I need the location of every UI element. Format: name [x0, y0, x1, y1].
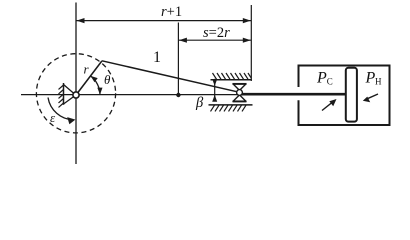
dimension line s=2r	[178, 39, 251, 41]
r+1 left arrowhead	[77, 18, 85, 23]
beta dimension vertical line	[214, 79, 216, 101]
svg-text:r: r	[84, 62, 90, 77]
theta arc arrowhead upper	[91, 76, 98, 82]
junction dot at stroke start	[176, 93, 180, 97]
slider guide bottom rail	[209, 104, 253, 106]
theta arc arrowhead lower	[97, 88, 102, 95]
svg-text:r+1: r+1	[161, 4, 182, 20]
extension line right (x=251)	[250, 5, 252, 81]
epsilon arrowhead	[67, 117, 75, 124]
fixed support wall	[63, 83, 65, 105]
svg-text:C: C	[327, 77, 333, 87]
slider pin circle	[237, 90, 243, 96]
horizontal centerline	[21, 94, 240, 96]
s=2r right arrowhead	[243, 38, 251, 43]
slider bowtie lower triangle	[233, 95, 246, 102]
piston rod (thick) from slider to piston	[240, 93, 346, 96]
dimension line r+1	[76, 20, 251, 22]
svg-text:P: P	[316, 70, 327, 87]
svg-text:ε: ε	[50, 110, 56, 125]
top rail hatching	[213, 73, 252, 79]
slider bowtie upper triangle	[233, 84, 246, 91]
slider bowtie lower base bar	[233, 100, 247, 102]
piston	[346, 68, 357, 122]
theta angle arc	[91, 76, 101, 95]
cylinder body	[299, 66, 390, 126]
svg-text:H: H	[375, 77, 382, 87]
connecting rod	[102, 61, 240, 93]
beta up arrowhead at centerline	[212, 95, 217, 102]
extension line left for s (x=178.4)	[177, 23, 179, 96]
svg-text:P: P	[365, 70, 376, 87]
arrow toward piston left side	[322, 101, 334, 110]
fixed support triangle	[64, 85, 75, 105]
crank arm r	[76, 61, 102, 95]
slider bowtie upper base bar	[233, 83, 247, 85]
slider guide top rail	[211, 79, 252, 81]
dashed crank circle	[36, 54, 115, 133]
svg-text:s=2r: s=2r	[203, 25, 230, 41]
bottom rail hatching	[211, 105, 247, 111]
fixed support hatching	[59, 85, 64, 107]
svg-text:β: β	[195, 95, 204, 111]
vertical centerline through crank axis	[75, 3, 77, 165]
s=2r left arrowhead	[179, 38, 187, 43]
svg-text:1: 1	[153, 49, 161, 66]
pivot pin circle O	[73, 92, 79, 98]
epsilon rotation arrow	[48, 98, 73, 120]
arrow toward piston right side	[366, 94, 378, 99]
r+1 right arrowhead	[243, 18, 251, 23]
svg-text:θ: θ	[104, 72, 111, 87]
beta down arrowhead at rod	[212, 79, 217, 86]
